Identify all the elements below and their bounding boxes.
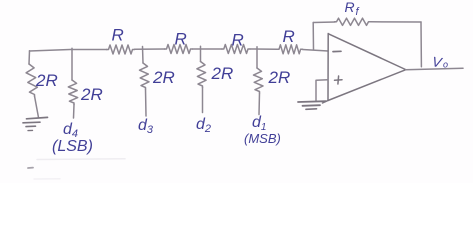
svg-text:2R: 2R (211, 64, 234, 83)
wire: rail segment 2 (R1 to R2) (135, 48, 165, 50)
wire: to node d3 (145, 89, 148, 116)
wire: d3 branch drop (142, 47, 145, 64)
op-amp inverting pin marker (-) (333, 50, 341, 52)
wire: rail segment 3 (R2 to R3) (193, 48, 223, 50)
resistor Rf (feedback) (335, 18, 371, 25)
wire: to node d1 (258, 93, 261, 115)
wire: feedback top right (371, 21, 422, 23)
resistor R2 (R, series ladder) (165, 45, 193, 54)
resistor 2R (d4 branch) (68, 80, 77, 105)
svg-text:2R: 2R (35, 71, 58, 90)
resistor 2R (d2 branch) (197, 62, 206, 88)
svg-text:R: R (112, 26, 124, 45)
ground (left) (23, 117, 48, 130)
(scan artifacts, decorative) (37, 158, 125, 161)
resistor R3 (R, series ladder) (222, 45, 250, 54)
wire: rail segment 5 (R4 to op-amp inverting input) (303, 50, 328, 52)
svg-text:(LSB): (LSB) (52, 138, 93, 155)
wire: feedback top left (313, 21, 335, 24)
wire: left branch drop (28, 51, 31, 64)
wire: rail segment 4 (R3 to R4) (250, 48, 277, 50)
svg-text:2R: 2R (80, 85, 103, 104)
wire: feedback down to output (420, 22, 422, 67)
svg-text:R: R (283, 27, 295, 46)
svg-text:R: R (232, 31, 244, 50)
svg-text:2R: 2R (152, 68, 175, 87)
wire: d4 branch drop (71, 48, 73, 80)
wire: top rail segment 1 (node A to R1) (30, 50, 108, 52)
resistor R1 (R, series ladder) (107, 45, 135, 54)
wire: d1 branch drop (256, 47, 258, 68)
resistor 2R (d1 branch) (254, 68, 264, 93)
wire: d2 branch drop (200, 46, 202, 61)
svg-text:o: o (443, 60, 448, 70)
wire: feedback tap up from rail (312, 23, 314, 50)
svg-text:(MSB): (MSB) (244, 131, 281, 146)
op-amp non-inverting pin marker (+) (335, 76, 343, 84)
svg-text:R: R (175, 30, 187, 49)
svg-text:2R: 2R (268, 68, 291, 87)
wire: non-inverting input (316, 80, 328, 101)
wire: output (406, 68, 464, 70)
wire: to node d2 (202, 88, 204, 113)
resistor 2R (d3 branch) (140, 63, 150, 89)
op-amp U1 (323, 34, 406, 104)
svg-text:R: R (345, 0, 355, 15)
wire: to ground (35, 96, 39, 118)
resistor 2R (terminating) (26, 64, 37, 96)
resistor R4 (R, series ladder) (277, 45, 303, 54)
ground (op-amp) (298, 101, 326, 109)
wire: to node d4 (73, 105, 76, 119)
